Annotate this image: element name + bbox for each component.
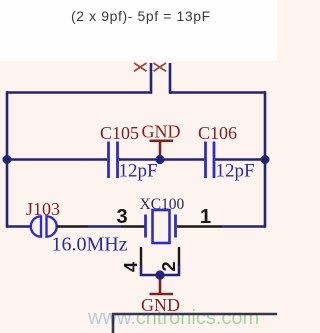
XC100 right plate [174,215,177,238]
capacitor C105 plates [109,142,118,179]
wire bottom page corner [113,314,277,333]
wire to J103 [7,225,31,228]
XC100 pin 4 stub (vertical) [140,247,142,266]
XC100 pin 2 stub (vertical) [178,247,180,266]
wire stub right (no-ERC) [169,63,172,94]
wire J103 to XC100 [88,225,121,228]
wire right vertical [264,91,267,228]
svg-text:12pF: 12pF [216,161,255,182]
power port GND top: bar and stem [150,141,174,160]
wire top-right horizontal [170,91,265,94]
node junction center (gnd tap) [155,155,164,164]
svg-text:1: 1 [200,206,211,228]
wire joining pins 4 and 2 [141,265,179,276]
svg-text:GND: GND [142,122,181,142]
wire stub left (no-ERC) [150,63,153,94]
wire top-left horizontal [7,91,151,94]
svg-text:12pF: 12pF [119,161,158,182]
crystal J103 symbol [31,216,57,236]
power port GND bottom: stem and bar [150,275,174,294]
svg-text:3: 3 [117,206,128,228]
wire middle row right segment [215,158,265,161]
wire left vertical [6,91,9,228]
no-ERC cross X2 [154,63,167,71]
wire XC100 pin1 to right vertical [222,225,265,228]
crystal XC100 body rect [153,210,170,243]
svg-text:C106: C106 [198,123,237,143]
XC100 pin 3 stub [121,225,145,227]
svg-text:J103: J103 [26,199,60,219]
svg-text:4: 4 [121,262,141,272]
node junction right [261,155,270,164]
wire middle row left segment [7,158,107,161]
XC100 left plate [144,215,147,238]
svg-text:16.0MHz: 16.0MHz [52,234,128,256]
svg-text:(2 x 9pf)- 5pf = 13pF: (2 x 9pf)- 5pf = 13pF [71,8,211,24]
node junction left [3,155,12,164]
no-ERC cross X1 [134,63,147,71]
XC100 pin 1 stub [177,225,222,227]
node junction bottom [155,270,164,279]
J103 pin 2 stub [57,225,88,227]
wire middle row center segment [119,158,204,161]
svg-text:C105: C105 [100,123,139,143]
capacitor C106 plates [206,142,215,179]
svg-text:2: 2 [159,261,179,271]
white title band [0,0,277,61]
